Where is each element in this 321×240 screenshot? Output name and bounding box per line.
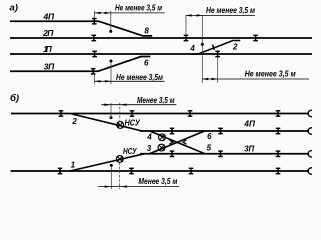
dimension line b-top	[101, 104, 176, 106]
svg-text:2: 2	[232, 42, 238, 51]
arrowhead right	[105, 80, 111, 82]
track 3P-b line	[140, 153, 309, 155]
svg-text:Не менее 3,5м: Не менее 3,5м	[116, 73, 163, 82]
extension line above joint 4P	[93, 11, 95, 18]
limit post dot b-top	[110, 116, 113, 119]
joint on 2P right	[253, 35, 258, 41]
svg-text:а): а)	[10, 2, 18, 13]
svg-text:2П: 2П	[42, 28, 54, 38]
extension line below joint 3P	[93, 75, 95, 85]
track b-top line	[11, 113, 309, 115]
dashed extension through NSU bottom	[119, 162, 121, 189]
limit post dot b-bottom	[110, 164, 113, 167]
dashed extension through NSU top	[119, 103, 121, 122]
arrowhead left	[95, 80, 101, 82]
arrowhead right	[105, 12, 111, 14]
chevron left of crossing	[169, 140, 173, 144]
track b-bottom line	[11, 170, 310, 172]
limit post dot a-bottom	[110, 60, 113, 63]
NSU joint circle on X down diagonal	[159, 134, 166, 141]
switch 2 diagonal	[70, 114, 142, 132]
track 2P line	[10, 37, 312, 39]
dimension line a-bottom-left	[94, 80, 164, 82]
X crossing diagonal up	[149, 131, 205, 154]
chevron right of crossing	[183, 140, 187, 144]
hook end b-top	[308, 110, 312, 117]
dimension line b-bottom	[98, 186, 179, 188]
track 4P-b line	[140, 130, 309, 132]
svg-text:Не менее 3,5 м: Не менее 3,5 м	[206, 6, 255, 15]
arrowhead left	[95, 12, 101, 14]
extension line from 2P joint up	[185, 15, 187, 35]
track 1P line	[10, 53, 312, 55]
arrowhead pointing right	[104, 104, 110, 106]
NSU circle bottom	[116, 156, 123, 163]
svg-text:б): б)	[10, 93, 19, 104]
hook end b-bottom	[308, 168, 312, 175]
X crossing diagonal down	[149, 131, 205, 154]
crossover switch 4-2	[191, 41, 241, 55]
svg-text:2: 2	[71, 117, 77, 126]
dimension line a-bottom-right	[202, 78, 309, 80]
svg-text:1П: 1П	[43, 44, 52, 54]
svg-text:3П: 3П	[44, 61, 55, 71]
joint on 2P left	[92, 35, 97, 41]
extension line dot b-bottom	[110, 165, 112, 189]
extension line dot b-top	[110, 103, 112, 118]
svg-text:Менее 3,5 м: Менее 3,5 м	[137, 96, 175, 105]
dimension line a-top-right	[186, 14, 256, 16]
extension line below 1P joint	[217, 58, 219, 83]
svg-text:6: 6	[144, 58, 149, 67]
arrowhead right	[197, 14, 203, 16]
switch 1 diagonal	[70, 154, 144, 171]
joints on b-bottom	[58, 168, 63, 174]
svg-text:8: 8	[144, 26, 149, 35]
joint on 1P mid	[215, 51, 220, 57]
extension line through dot a-right	[201, 15, 203, 82]
svg-text:НСУ: НСУ	[125, 118, 141, 127]
joint on 3P	[91, 68, 96, 74]
NSU circle top	[117, 122, 124, 129]
joint on 4P	[92, 18, 97, 24]
svg-text:3П: 3П	[244, 143, 255, 153]
svg-text:6: 6	[207, 132, 212, 141]
arrowhead pointing right	[105, 185, 111, 187]
NSU joint circle on X up diagonal	[158, 144, 165, 151]
svg-text:Не менее 3,5 м: Не менее 3,5 м	[115, 4, 162, 13]
hook end 4P-b	[308, 128, 312, 135]
arrowhead left	[186, 14, 192, 16]
svg-text:3: 3	[147, 144, 152, 153]
svg-text:Не менее 3,5 м: Не менее 3,5 м	[245, 70, 296, 79]
joints on 4P-b	[170, 128, 175, 134]
svg-text:4П: 4П	[243, 118, 255, 128]
joint on crossover diagonal	[212, 45, 214, 50]
joints on b-top	[59, 110, 64, 116]
arrowhead left	[202, 78, 208, 80]
arrowhead pointing left	[121, 104, 127, 106]
limit post dot a-top	[109, 30, 112, 33]
arrowhead pointing left	[121, 185, 127, 187]
svg-text:4: 4	[146, 133, 152, 142]
limit post dot a-right	[201, 43, 204, 46]
joints on 3P-b	[170, 151, 175, 157]
track 4P line	[10, 21, 152, 36]
svg-text:НСУ: НСУ	[123, 147, 137, 156]
joint on 2P mid	[184, 35, 189, 41]
joint on 1P left	[92, 51, 97, 57]
svg-text:1: 1	[71, 161, 76, 170]
dimension line a-top-left	[94, 12, 164, 14]
arrowhead right	[212, 78, 218, 80]
track 3P line	[10, 57, 150, 72]
hook end 3P-b	[308, 151, 312, 158]
extension line to limit post dot top	[110, 11, 112, 32]
svg-text:4П: 4П	[43, 11, 55, 21]
svg-text:5: 5	[207, 143, 212, 152]
extension line from dot a-bottom	[110, 61, 112, 84]
svg-text:4: 4	[189, 44, 195, 53]
svg-text:Менее 3,5 м: Менее 3,5 м	[138, 177, 177, 186]
